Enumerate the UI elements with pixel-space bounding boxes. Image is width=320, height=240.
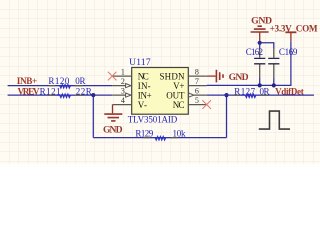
pulse waveform annotation xyxy=(259,111,290,129)
svg-text:10k: 10k xyxy=(173,128,187,138)
svg-text:GND: GND xyxy=(229,72,249,83)
svg-text:C169: C169 xyxy=(279,47,298,57)
pin 3 input wedge xyxy=(126,93,131,97)
pin 1 NC stub xyxy=(112,75,132,77)
pin 5 NC stub xyxy=(188,104,206,106)
pin 6 OUT stub xyxy=(188,94,206,96)
wire VREV net xyxy=(8,94,113,96)
svg-text:7: 7 xyxy=(195,77,199,86)
wire OUT net xyxy=(207,94,314,96)
junction at ground / caps xyxy=(258,41,262,45)
junction C162 on V+ xyxy=(258,83,262,87)
svg-text:OUT: OUT xyxy=(166,90,185,100)
op-amp comparator U117 body xyxy=(132,68,189,115)
svg-text:R127: R127 xyxy=(234,87,255,97)
svg-text:IN-: IN- xyxy=(138,81,151,91)
resistor R127 xyxy=(234,87,270,98)
junction C169 on V+ xyxy=(272,83,276,87)
wire V+ net xyxy=(207,41,291,85)
svg-text:+3.3V_COM: +3.3V_COM xyxy=(270,23,318,33)
svg-text:INB+: INB+ xyxy=(17,76,37,86)
svg-text:C162: C162 xyxy=(246,47,263,57)
svg-text:NC: NC xyxy=(138,71,149,81)
svg-text:V-: V- xyxy=(138,100,147,110)
svg-text:0R: 0R xyxy=(75,76,85,86)
capacitor C169 xyxy=(260,43,298,86)
svg-text:NC: NC xyxy=(173,100,185,110)
svg-text:8: 8 xyxy=(195,68,199,77)
svg-text:SHDN: SHDN xyxy=(160,71,186,81)
svg-text:0R: 0R xyxy=(260,87,270,97)
capacitor C162 xyxy=(246,43,265,86)
svg-text:GND: GND xyxy=(251,16,272,27)
svg-text:R121: R121 xyxy=(40,86,61,96)
resistor R121 xyxy=(40,86,92,97)
ground symbol at pin 4 xyxy=(112,105,114,114)
svg-text:2: 2 xyxy=(121,77,125,86)
svg-text:5: 5 xyxy=(195,96,199,105)
svg-text:R129: R129 xyxy=(135,128,153,138)
svg-text:4: 4 xyxy=(121,96,125,105)
wire feedback bottom xyxy=(93,137,226,139)
junction on VREV net xyxy=(91,93,95,97)
svg-text:VdifDet: VdifDet xyxy=(275,87,304,97)
pin 2 IN- stub xyxy=(112,85,132,87)
resistor R120 xyxy=(48,76,85,88)
svg-text:3: 3 xyxy=(121,87,125,96)
svg-text:TLV3501AID: TLV3501AID xyxy=(128,115,178,125)
svg-text:6: 6 xyxy=(195,87,199,96)
junction on OUT net xyxy=(224,93,228,97)
svg-text:22R: 22R xyxy=(76,86,92,96)
svg-text:U117: U117 xyxy=(129,58,151,68)
svg-text:VREV: VREV xyxy=(18,86,40,96)
pin 6 output wedge xyxy=(189,93,194,97)
pin 2 input wedge xyxy=(126,84,131,88)
power port +3.3V_COM xyxy=(290,33,292,41)
sideways ground symbol at pin 8 xyxy=(207,75,216,77)
resistor R129 xyxy=(135,128,186,140)
wire feedback left vertical xyxy=(92,95,94,138)
pin 8 SHDN stub xyxy=(188,75,206,77)
svg-text:GND: GND xyxy=(103,125,123,136)
wire INB+ net xyxy=(8,85,113,87)
wire feedback right vertical xyxy=(226,95,228,138)
svg-text:IN+: IN+ xyxy=(138,90,152,100)
svg-text:1: 1 xyxy=(121,68,125,77)
pin 7 V+ stub xyxy=(188,85,206,87)
svg-text:R120: R120 xyxy=(48,76,70,86)
svg-text:V+: V+ xyxy=(173,81,184,91)
pin 4 V- stub xyxy=(113,104,132,106)
no-ERC X pin 1 xyxy=(108,72,117,81)
no-ERC X pin 5 xyxy=(202,100,211,109)
pin 3 IN+ stub xyxy=(112,94,132,96)
